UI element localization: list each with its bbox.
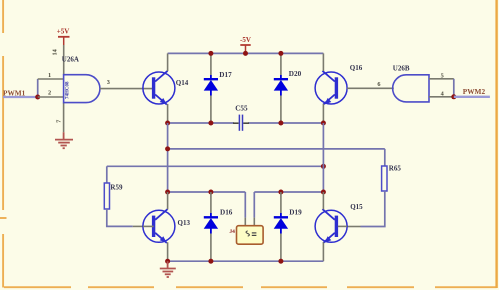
power +5V bar symbol: [58, 36, 70, 38]
D20 anode pin: [280, 96, 282, 124]
svg-text:R59: R59: [110, 183, 123, 191]
resistor R65: [382, 166, 387, 191]
svg-text:D19: D19: [289, 209, 302, 217]
svg-text:5: 5: [441, 73, 444, 80]
Q15 emitter arrow: [324, 236, 331, 243]
junction PWM2 node: [451, 94, 456, 99]
wire right vertical: [322, 123, 324, 192]
ground (bottom rail): [160, 261, 176, 277]
wire left vertical: [167, 123, 169, 192]
wire R65 bottom to Q15 base: [361, 191, 385, 227]
Q16 emitter arrow: [324, 98, 331, 105]
wire rail C right segment: [254, 191, 323, 193]
diode D17: [204, 75, 218, 96]
svg-text:D20: D20: [289, 70, 302, 78]
pin 7 stub: [63, 103, 65, 133]
Q13 collector pin: [167, 192, 169, 209]
svg-text:7: 7: [55, 120, 62, 123]
Q14 collector pin: [167, 53, 169, 71]
resistor R59: [104, 183, 109, 209]
svg-text:D17: D17: [219, 71, 232, 79]
D17 cathode pin: [210, 53, 212, 75]
Q16 emitter pin: [322, 104, 324, 123]
Q13 base pin: [143, 225, 154, 227]
svg-text:1: 1: [48, 72, 51, 79]
wire top rail: [168, 52, 324, 54]
diode D16: [204, 213, 218, 234]
wire input tie vertical: [37, 79, 39, 97]
Q15 base wire gray part: [347, 226, 361, 228]
wire output tie vertical: [453, 79, 455, 97]
D17 anode pin: [210, 96, 212, 124]
junction rail C Q13 collector: [165, 190, 170, 195]
transistor Q14: [143, 71, 175, 105]
svg-text:Q14: Q14: [176, 79, 189, 87]
Q13 emitter pin: [167, 242, 169, 261]
transistor Q15: [315, 209, 347, 243]
junction rail C D16: [208, 190, 213, 195]
J4 DC symbol: [252, 232, 257, 234]
Q15 emitter pin: [322, 242, 324, 261]
svg-text:2: 2: [48, 90, 51, 97]
diode D19: [274, 213, 288, 234]
junction D17 top: [208, 51, 213, 56]
D19 anode pin: [280, 234, 282, 262]
junction node B: [321, 164, 326, 169]
svg-text:3: 3: [107, 79, 110, 86]
pin 3 wire: [100, 88, 154, 90]
capacitor C55: [233, 122, 239, 124]
junction PWM1 node: [35, 95, 40, 100]
D16 anode pin: [210, 234, 212, 262]
Q15 base pin: [338, 225, 347, 227]
svg-text:U26B: U26B: [393, 65, 410, 73]
junction rail C Q15 collector: [321, 190, 326, 195]
svg-text:PWM1: PWM1: [3, 88, 26, 97]
Q15 collector pin: [322, 192, 324, 209]
transistor Q13: [143, 209, 175, 243]
pin 1 stub: [38, 78, 64, 80]
svg-text:Q15: Q15: [350, 203, 363, 211]
wire J4 left pin drop: [244, 192, 246, 218]
Q16 collector pin: [322, 53, 324, 71]
pin 2 stub: [38, 96, 64, 98]
svg-text:Q16: Q16: [350, 64, 363, 72]
AND gate U26B: [393, 75, 429, 102]
junction bottom rail D16: [208, 259, 213, 264]
D20 cathode pin: [280, 53, 282, 75]
junction bottom rail ground: [165, 259, 170, 264]
wire J4 right pin drop: [253, 192, 255, 218]
svg-text:C55: C55: [235, 105, 248, 113]
junction D20 top: [278, 51, 283, 56]
ground (U26A pin 7): [55, 132, 73, 148]
Q14 emitter pin: [167, 104, 169, 123]
junction node A: [165, 146, 170, 151]
junction bottom rail D19: [278, 259, 283, 264]
svg-text:Q13: Q13: [178, 219, 191, 227]
D16 cathode pin: [210, 192, 212, 213]
D19 cathode pin: [280, 192, 282, 213]
svg-text:J4: J4: [229, 229, 235, 235]
svg-text:U26A: U26A: [62, 56, 79, 64]
wire rail C left segment: [168, 191, 246, 193]
wire mid rail left: [168, 122, 234, 124]
Q13 emitter arrow: [160, 236, 167, 243]
diode D20: [274, 75, 288, 96]
wire to R59 top: [106, 166, 108, 183]
wire to R65 top: [384, 149, 386, 166]
junction mid rail Q16 emitter: [321, 121, 326, 126]
svg-text:6: 6: [377, 81, 380, 88]
transistor Q16: [315, 71, 347, 105]
junction -5V on rail: [243, 51, 248, 56]
pin 6 wire: [347, 87, 394, 89]
wire PWM2 net: [454, 96, 490, 98]
junction mid rail D17: [208, 121, 213, 126]
sheet border right vertical: [495, 0, 497, 288]
AND gate U26A: [64, 75, 100, 103]
Q13 base wire gray part: [133, 225, 143, 227]
svg-text:74HC08: 74HC08: [66, 81, 71, 99]
svg-text:-5V: -5V: [240, 36, 251, 44]
junction rail C D19: [278, 190, 283, 195]
power -5V bar symbol: [240, 44, 250, 46]
wire node B horizontal: [107, 165, 324, 167]
junction mid rail Q14 emitter: [165, 121, 170, 126]
Q14 emitter arrow: [160, 98, 167, 105]
connector J4: [237, 226, 264, 245]
wire PWM1 net: [3, 96, 38, 98]
wire R59 bottom to Q13 base: [107, 209, 133, 226]
pin 4 stub: [429, 96, 454, 98]
svg-text:D16: D16: [220, 209, 233, 217]
pin 5 stub: [429, 78, 454, 80]
pin 14 stub: [63, 45, 65, 75]
svg-text:R65: R65: [389, 165, 402, 173]
svg-text:PWM2: PWM2: [463, 87, 486, 96]
svg-text:14: 14: [52, 48, 59, 55]
wire bottom rail: [168, 260, 324, 262]
svg-text:+5V: +5V: [57, 28, 70, 36]
wire mid rail right: [248, 122, 323, 124]
junction mid rail D20: [278, 121, 283, 126]
sheet border left vertical segments: [0, 0, 7, 288]
sheet border bottom dashes: [4, 286, 497, 288]
J4 AC symbol: [246, 231, 249, 236]
wire node A horizontal: [168, 148, 385, 150]
